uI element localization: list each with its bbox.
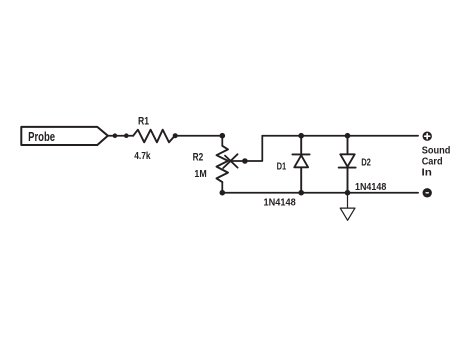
node D2 bottom	[345, 190, 351, 196]
ground	[340, 193, 355, 221]
diode D1	[292, 136, 309, 193]
svg-text:D1: D1	[277, 160, 287, 172]
potentiometer R2	[217, 146, 229, 182]
node D2 top	[345, 133, 351, 139]
node R2 bottom	[220, 190, 226, 196]
svg-text:Card: Card	[422, 157, 443, 168]
node A top of R2	[220, 133, 226, 139]
svg-text:Probe: Probe	[28, 130, 55, 144]
svg-text:R2: R2	[193, 151, 204, 163]
terminal minus	[423, 188, 432, 197]
wire R2 to bottom rail	[221, 182, 223, 193]
node D1 top	[298, 133, 304, 139]
svg-text:In: In	[422, 168, 432, 179]
wire R1 to node A	[175, 135, 222, 137]
node probe output	[113, 133, 118, 138]
svg-text:Sound: Sound	[422, 146, 451, 157]
wire probe tip to R1	[108, 135, 133, 137]
node R1 right terminal	[173, 133, 178, 138]
wire top rail	[262, 135, 418, 137]
node D1 bottom	[298, 190, 304, 196]
resistor R1	[133, 130, 175, 143]
terminal plus	[423, 132, 432, 141]
svg-text:1M: 1M	[194, 169, 206, 180]
node R1 left terminal	[124, 133, 129, 138]
svg-text:D2: D2	[361, 157, 371, 169]
node wiper terminal	[242, 158, 248, 164]
svg-text:4.7k: 4.7k	[134, 151, 151, 162]
diode D2	[339, 136, 356, 193]
wiper arrow of R2	[223, 154, 237, 168]
wire bottom rail	[222, 192, 418, 194]
wire node A to R2	[221, 136, 223, 146]
svg-text:1N4148: 1N4148	[264, 198, 296, 209]
svg-text:1N4148: 1N4148	[355, 182, 386, 193]
probe connector Probe	[21, 127, 108, 145]
svg-text:R1: R1	[138, 116, 149, 128]
wire wiper to top rail	[230, 136, 262, 161]
